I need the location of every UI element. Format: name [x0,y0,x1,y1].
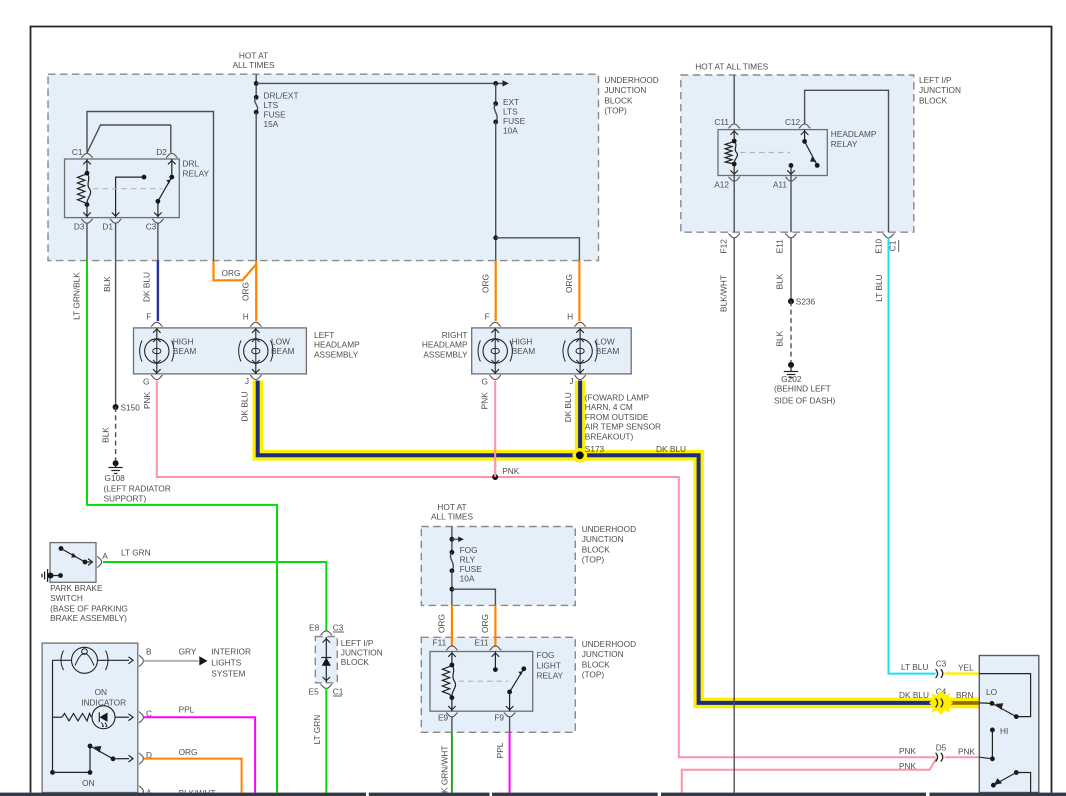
dashed BLK to ground [115,407,117,461]
svg-text:JUNCTION: JUNCTION [582,534,624,544]
svg-text:BLOCK: BLOCK [919,95,948,105]
park brake switch box [50,543,96,583]
headlamp relay coil [725,139,737,167]
HOT AT ALL TIMES label (fog) [431,502,473,522]
DRL relay pin sockets [81,153,177,223]
lower PNK wire to D5 [682,758,937,792]
dimmer internal yel path [979,674,1030,717]
svg-text:S173: S173 [585,444,605,454]
fog relay bottom pin sockets [446,713,515,717]
svg-text:BLK: BLK [775,330,785,346]
svg-text:BLOCK: BLOCK [604,95,633,105]
svg-text:BLOCK: BLOCK [341,657,370,667]
svg-text:LO: LO [986,687,998,697]
svg-text:G108: G108 [105,473,126,483]
svg-text:BEAM: BEAM [173,346,197,356]
connector C3 symbol [936,669,943,678]
svg-text:LTS: LTS [503,107,518,117]
park brake chassis ground [42,569,63,582]
headlamp relay stubs [730,130,808,176]
fog upper junction block label [582,524,636,565]
svg-text:J: J [569,376,573,386]
DRL relay dashed line [93,188,163,190]
svg-text:H: H [243,312,249,322]
diode block pin sockets [321,631,333,688]
svg-text:C1: C1 [72,147,83,157]
DRL relay coil [78,171,91,207]
bottom dark bar [0,793,1066,796]
dimmer HI contact [979,726,1008,761]
svg-text:PNK: PNK [899,746,917,756]
svg-text:SWITCH: SWITCH [50,593,83,603]
wire LT GRN below E5 [325,688,327,793]
G108 label [104,473,171,504]
svg-text:UNDERHOOD: UNDERHOOD [604,75,658,85]
park brake switch internals [59,546,93,565]
fog relay stubs [448,652,513,712]
fog fuse label [460,545,483,584]
svg-text:EXT: EXT [503,97,519,107]
left I/P junction block label (diode) [341,638,383,667]
right high beam bulb [478,328,512,374]
svg-text:(TOP): (TOP) [604,106,627,116]
svg-text:S236: S236 [796,296,816,306]
svg-text:PNK: PNK [899,761,917,771]
fog relay switch blade [507,666,526,694]
svg-text:HIGH: HIGH [173,337,194,347]
S173 harness note [585,392,661,454]
svg-text:BRN: BRN [956,690,974,700]
svg-text:ORG: ORG [241,282,251,301]
svg-text:LIGHT: LIGHT [537,660,561,670]
svg-text:G: G [143,377,149,387]
right headlamp assembly box [472,328,632,374]
wire DK GRN/WHT [451,732,453,792]
highlighted DK BLU wire core [258,381,935,703]
svg-text:G202: G202 [781,374,802,384]
svg-text:C1: C1 [333,686,344,696]
ON indicator lamp [53,647,134,673]
right headlamp pin sockets [489,322,585,379]
svg-text:C11: C11 [714,117,729,127]
svg-text:LT GRN: LT GRN [121,548,151,558]
ground G202 [784,362,798,378]
svg-text:JUNCTION: JUNCTION [341,647,383,657]
fog rly fuse feed [450,527,464,553]
svg-text:D1: D1 [102,221,113,231]
bulb labels right [512,337,620,357]
left high beam bulb [140,328,174,374]
headlamp relay pin labels [714,117,800,189]
svg-text:BREAKOUT): BREAKOUT) [585,432,634,442]
svg-text:SUPPORT): SUPPORT) [104,494,147,504]
EXT LTS fuse 10A [493,83,498,260]
splice pink junction [492,474,498,480]
svg-text:DK GRN/WHT: DK GRN/WHT [440,746,450,796]
svg-text:JUNCTION: JUNCTION [582,649,624,659]
splice S173 with highlight ring [573,448,588,463]
svg-text:A12: A12 [714,179,729,189]
fog relay output stubs [452,717,510,733]
headlamp relay box [718,130,827,176]
svg-text:LIGHTS: LIGHTS [211,657,241,667]
connector C4 highlight burst [929,691,953,716]
svg-text:ON: ON [82,778,94,788]
bulb labels left [173,337,295,357]
svg-text:DRL: DRL [183,158,200,168]
wire PNK right G [494,381,496,478]
wire E10 LT BLU [889,238,936,674]
dimmer LO contact and blade [979,701,1018,719]
headlamp relay switch blade [802,139,819,168]
svg-text:DK BLU: DK BLU [240,392,250,422]
svg-text:AIR TEMP SENSOR: AIR TEMP SENSOR [585,422,661,432]
svg-text:ORG: ORG [564,274,574,293]
right low beam bulb [563,328,597,374]
diode symbol [321,637,331,683]
fog relay pin labels E9 F9 [438,713,504,723]
svg-text:D5: D5 [936,742,947,752]
headlamp relay dashed line [740,152,790,154]
svg-text:FUSE: FUSE [503,116,526,126]
svg-text:C3: C3 [936,658,947,668]
wire C1-D2 jumper [87,125,171,153]
svg-text:BEAM: BEAM [271,346,295,356]
wire PPL from pin C [144,717,255,792]
fog relay dashed line [459,680,509,682]
svg-text:(FOWARD LAMP: (FOWARD LAMP [585,392,650,402]
svg-text:BLK: BLK [775,273,785,289]
wire ORG from pin D [144,759,242,793]
DRL/EXT LTS fuse label [264,91,299,130]
svg-text:HOT AT ALL TIMES: HOT AT ALL TIMES [695,61,768,71]
wire PNK left G to D5 [157,381,936,758]
svg-text:G: G [482,377,488,387]
wire PNK right G overlay crossing highlight [494,446,496,477]
svg-text:HIGH: HIGH [512,337,533,347]
svg-text:LT GRN: LT GRN [312,715,322,745]
svg-text:ASSEMBLY: ASSEMBLY [423,349,468,359]
dimmer lower switch [991,770,1031,792]
ORG labels fog [437,614,491,633]
DRL relay switch blade [156,175,175,204]
EXT fuse branch to H pin [493,235,579,260]
DRL relay box [65,159,180,218]
left I/P junction block label [919,75,961,105]
wire LT GRN park brake to E8 [103,562,326,631]
wire YEL after C3 [945,672,980,674]
wire PNK after D5 [945,756,980,758]
wire A11 to E11 [790,176,792,233]
left low beam bulb [239,328,273,374]
svg-text:RELAY: RELAY [183,169,210,179]
EXT LTS fuse label [503,97,526,136]
left headlamp assembly box [134,328,307,374]
ground G108 [108,460,122,473]
svg-text:JUNCTION: JUNCTION [604,85,646,95]
svg-text:BEAM: BEAM [512,346,536,356]
svg-text:SIDE OF DASH): SIDE OF DASH) [774,396,836,406]
fog upper underhood junction block dashed box [421,527,575,606]
svg-text:DK BLU: DK BLU [563,392,573,422]
fog relay top pin sockets [446,646,501,650]
svg-text:F11: F11 [433,638,447,648]
svg-text:ALL TIMES: ALL TIMES [233,60,275,70]
left headlamp assembly label [314,330,360,359]
ORG labels right [481,274,575,293]
svg-text:10A: 10A [503,126,518,136]
svg-text:HEADLAMP: HEADLAMP [831,129,877,139]
svg-text:H: H [567,312,573,322]
fog light relay box [430,652,533,712]
svg-text:FOG: FOG [460,545,478,555]
diode block labels [309,622,345,696]
svg-text:(BEHIND LEFT: (BEHIND LEFT [774,384,831,394]
ON box right pin sockets [139,655,143,796]
headlamp dimmer switch box [979,656,1039,793]
fog light relay label [537,650,564,680]
svg-text:FUSE: FUSE [264,110,287,120]
svg-text:RLY: RLY [460,555,476,565]
svg-text:PPL: PPL [495,742,505,758]
svg-text:C12: C12 [785,117,801,127]
DRL relay pin labels [72,147,167,232]
wire D1 BLK [115,223,117,407]
svg-text:BEAM: BEAM [596,346,620,356]
svg-text:DK BLU: DK BLU [142,272,152,302]
svg-text:ORG: ORG [480,614,490,633]
svg-text:(BASE OF PARKING: (BASE OF PARKING [50,603,128,613]
fog relay coil [442,663,455,701]
pin letters B C D [146,647,152,796]
svg-text:LEFT I/P: LEFT I/P [919,75,952,85]
svg-text:J: J [245,376,249,386]
svg-text:BLK: BLK [101,427,111,443]
svg-text:F9: F9 [494,713,504,723]
underhood junction block (top) dashed box [48,74,599,260]
svg-text:HEADLAMP: HEADLAMP [314,340,360,350]
splice S150 [113,403,141,413]
fog lower junction block label [582,639,636,680]
svg-text:E9: E9 [438,713,449,723]
junction block bottom pin sockets [728,234,894,238]
svg-text:E11: E11 [474,638,489,648]
wire C12 to E10 [805,90,889,232]
rotated pin labels F12 E11 E10 C1 [719,239,899,254]
svg-text:HEADLAMP: HEADLAMP [422,340,468,350]
svg-text:DK BLU: DK BLU [656,444,686,454]
wire C1 to ORG drop [87,112,214,261]
connector C3 labels [901,658,974,672]
svg-text:DRL/EXT: DRL/EXT [264,91,299,101]
svg-text:GRY: GRY [179,647,197,657]
svg-text:UNDERHOOD: UNDERHOOD [582,639,636,649]
svg-text:LOW: LOW [271,337,290,347]
ORG jog from C1 drop joining fuse output [214,261,257,281]
svg-text:RELAY: RELAY [831,139,858,149]
svg-text:INTERIOR: INTERIOR [211,646,251,656]
svg-text:BLOCK: BLOCK [582,659,611,669]
G202 label [774,374,836,406]
svg-text:HI: HI [1000,726,1008,736]
feed wire to EXT fuse with arrow [256,80,509,86]
svg-text:YEL: YEL [958,662,974,672]
svg-text:C3: C3 [146,221,157,231]
wire F12 BLK/WHT [733,238,735,793]
splice S236 [788,296,816,306]
ORG wires to right headlamp [496,261,580,321]
wire D3 LT GRN/BLK [87,223,277,793]
svg-text:PNK: PNK [480,392,490,410]
svg-text:LTS: LTS [264,100,279,110]
ORG wires to fog relay [452,605,496,646]
svg-text:(LEFT RADIATOR: (LEFT RADIATOR [104,483,171,493]
svg-text:PNK: PNK [142,392,152,410]
svg-text:15A: 15A [264,119,279,129]
fog fuse branch [450,587,496,606]
ON indicator switch [50,660,133,775]
svg-text:E8: E8 [309,622,320,632]
connector D5 labels [899,742,976,771]
svg-text:DK BLU: DK BLU [899,690,929,700]
GRY label and interior lights system [179,646,251,678]
svg-text:ON: ON [95,687,107,697]
svg-text:PARK BRAKE: PARK BRAKE [50,583,103,593]
fog lower underhood junction block dashed box [421,637,575,732]
svg-text:10A: 10A [460,574,475,584]
svg-text:ORG: ORG [222,268,241,278]
connector D5 symbol [936,753,943,762]
wire A12 to F12 [733,176,735,233]
svg-text:FUSE: FUSE [460,564,483,574]
svg-text:C3: C3 [333,623,344,633]
svg-text:BLK/WHT: BLK/WHT [719,275,729,312]
svg-text:(TOP): (TOP) [582,670,605,680]
svg-text:HOT AT: HOT AT [437,502,466,512]
svg-text:UNDERHOOD: UNDERHOOD [582,524,636,534]
svg-text:PPL: PPL [179,704,195,714]
left I/P junction block diode dashed box [315,637,337,683]
svg-text:A: A [102,551,108,561]
svg-text:ASSEMBLY: ASSEMBLY [314,349,359,359]
svg-text:LEFT: LEFT [314,330,334,340]
ORG wire to left H pin [255,261,257,321]
svg-text:BLOCK: BLOCK [582,544,611,554]
svg-text:LT BLU: LT BLU [874,274,884,301]
HOT AT ALL TIMES label (left) [233,50,275,70]
DRL relay pin stubs and arrows [83,159,175,218]
headlamp relay label [831,129,877,149]
ON INDICATOR label [81,687,126,708]
DRL relay label [183,158,210,178]
dashed BLK to G202 [790,301,792,362]
svg-text:S150: S150 [121,403,141,413]
svg-text:LT GRN/BLK: LT GRN/BLK [72,272,82,320]
svg-text:ORG: ORG [437,614,447,633]
svg-text:LOW: LOW [596,337,615,347]
wire C11 feed [733,75,735,124]
fog rly fuse 10A [450,550,455,606]
wire PPL fog [509,732,511,792]
svg-text:E10: E10 [874,239,884,254]
svg-text:FROM OUTSIDE: FROM OUTSIDE [585,412,649,422]
headlamp relay pin sockets [728,124,810,181]
wire C3 DK BLU to F pin [157,223,159,321]
svg-text:F12: F12 [719,239,729,254]
svg-text:F: F [485,312,490,322]
svg-text:LT BLU: LT BLU [901,662,928,672]
highlighted DK BLU wire yellow band [258,381,980,703]
left I/P junction block dashed box [681,75,914,232]
left headlamp pin sockets [151,322,262,379]
connector C4 labels [899,686,974,700]
svg-text:LEFT I/P: LEFT I/P [341,638,374,648]
park brake pin socket A [97,556,101,568]
underhood junction block label [604,75,658,116]
svg-text:FOG: FOG [537,650,555,660]
svg-text:PNK: PNK [502,466,520,476]
DRL/EXT LTS fuse 15A [254,74,259,260]
svg-text:BRAKE ASSEMBLY): BRAKE ASSEMBLY) [50,613,127,623]
svg-text:RIGHT: RIGHT [442,330,468,340]
ON indicator box [42,643,138,792]
right headlamp assembly label [422,330,468,359]
svg-text:ORG: ORG [481,274,491,293]
svg-text:F: F [146,312,151,322]
svg-text:E5: E5 [309,686,320,696]
svg-text:HOT AT: HOT AT [239,50,268,60]
svg-text:B: B [146,647,152,657]
BRN wire core after C4 [946,701,979,705]
svg-text:(TOP): (TOP) [582,555,605,565]
svg-text:D3: D3 [74,221,85,231]
svg-text:PNK: PNK [958,746,976,756]
svg-text:A11: A11 [773,179,788,189]
svg-text:D2: D2 [156,147,167,157]
park brake labels [50,548,151,623]
fog relay pin labels F11 E11 [433,638,489,648]
svg-text:SYSTEM: SYSTEM [211,668,245,678]
svg-text:HARN, 4 CM: HARN, 4 CM [585,402,633,412]
svg-text:ORG: ORG [179,747,198,757]
right headlamp pin labels [482,312,574,387]
svg-text:E11: E11 [775,239,785,254]
svg-text:ALL TIMES: ALL TIMES [431,511,473,521]
left headlamp pin labels [143,312,249,387]
wire E11 BLK [790,238,792,302]
wire GRY to interior lights [144,656,208,665]
connector C4 symbol [936,699,943,708]
svg-text:BLK: BLK [102,276,112,292]
svg-text:RELAY: RELAY [537,670,564,680]
ON indicator resistor and LED [53,706,134,729]
svg-text:JUNCTION: JUNCTION [919,85,961,95]
